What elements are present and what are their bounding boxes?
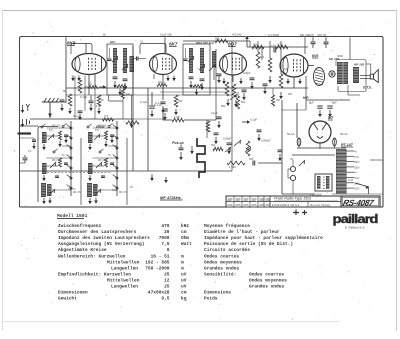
svg-text:Gewicht: Gewicht [58, 296, 77, 302]
svg-text:Abgestimmte Kreise: Abgestimmte Kreise [58, 247, 107, 253]
svg-text:300: 300 [178, 99, 183, 103]
svg-text:250V: 250V [354, 166, 360, 169]
svg-text:0,005µF: 0,005µF [261, 139, 271, 143]
svg-text:Watt: Watt [181, 241, 192, 247]
svg-text:750 -2000: 750 -2000 [145, 265, 170, 271]
svg-text:uV: uV [181, 284, 187, 290]
svg-text:m: m [181, 254, 184, 259]
svg-text:0,5: 0,5 [28, 150, 32, 153]
svg-text:500: 500 [249, 157, 254, 161]
svg-text:6K7: 6K7 [169, 42, 178, 47]
svg-text:170k: 170k [174, 115, 181, 119]
svg-text:MF 100: MF 100 [98, 125, 107, 128]
svg-text:Ondes moyennes: Ondes moyennes [249, 277, 287, 283]
svg-text:Pick-up: Pick-up [172, 141, 184, 145]
svg-text:100pF: 100pF [243, 71, 251, 75]
svg-text:70 370: 70 370 [68, 188, 76, 191]
svg-text:0,1µF: 0,1µF [140, 100, 147, 104]
svg-text:25k: 25k [253, 43, 258, 47]
svg-text:MF 472: MF 472 [73, 191, 82, 194]
svg-text:uV: uV [181, 277, 187, 283]
svg-text:Sensibilité:: Sensibilité: [204, 271, 236, 277]
svg-text:20: 20 [130, 186, 133, 189]
svg-text:uV: uV [181, 271, 187, 277]
svg-text:m: m [181, 266, 184, 271]
svg-text:50k: 50k [215, 37, 220, 41]
svg-text:0,1µF: 0,1µF [250, 118, 257, 122]
svg-text:Dimensions: Dimensions [204, 290, 231, 296]
svg-text:MF 160: MF 160 [98, 159, 107, 162]
svg-text:MF 472: MF 472 [119, 191, 128, 194]
svg-text:50k: 50k [211, 143, 216, 147]
svg-text:cm: cm [181, 291, 187, 296]
svg-text:47x80x28: 47x80x28 [148, 290, 170, 296]
svg-text:Empfindlichkeit: Kurzwellen: Empfindlichkeit: Kurzwellen [58, 271, 131, 277]
svg-text:25: 25 [164, 271, 170, 277]
svg-text:MF 100pF: MF 100pF [300, 33, 314, 37]
svg-text:E.PAILLARD & CIE S.A.: E.PAILLARD & CIE S.A. [272, 203, 300, 207]
svg-text:470: 470 [49, 130, 54, 132]
svg-text:Impedanz des zweiten Lautsprec: Impedanz des zweiten Lautsprechers [58, 235, 150, 241]
svg-text:1 MΩ: 1 MΩ [229, 165, 236, 169]
svg-text:Zwischenfrequenz: Zwischenfrequenz [58, 223, 102, 229]
svg-text:Langwellen: Langwellen [111, 265, 138, 271]
svg-text:6: 6 [167, 247, 170, 253]
svg-text:Langwellen: Langwellen [111, 284, 138, 290]
svg-text:6Q7: 6Q7 [228, 42, 237, 47]
svg-text:470 pF: 470 pF [317, 33, 327, 37]
svg-text:50k: 50k [221, 104, 226, 108]
svg-text:C.P.: C.P. [348, 178, 354, 182]
svg-text:Puissance de sortie (5% de Di: Puissance de sortie (5% de Dist.) [204, 241, 293, 247]
svg-text:0,1 µF: 0,1 µF [154, 103, 162, 107]
svg-text:m: m [181, 260, 184, 265]
svg-text:0,1µF: 0,1µF [112, 189, 119, 192]
svg-text:MF 160: MF 160 [52, 159, 61, 162]
svg-text:Wellenbereich: Kurzwellen: Wellenbereich: Kurzwellen [58, 253, 126, 259]
svg-text:50k: 50k [241, 101, 246, 104]
svg-text:300: 300 [158, 81, 163, 84]
svg-text:MF 100: MF 100 [52, 125, 61, 128]
svg-text:Ondes courtes: Ondes courtes [204, 253, 239, 259]
svg-text:470: 470 [161, 223, 169, 229]
svg-text:50: 50 [63, 89, 67, 93]
svg-text:0,05µF: 0,05µF [223, 137, 232, 141]
svg-text:Moyenne fréquence: Moyenne fréquence [204, 223, 250, 229]
svg-text:50: 50 [62, 155, 65, 157]
svg-text:Ohm: Ohm [181, 235, 189, 241]
svg-text:kHz: kHz [181, 223, 189, 229]
svg-text:470 240: 470 240 [232, 33, 242, 37]
svg-text:220V: 220V [354, 188, 360, 191]
svg-text:0,1µF: 0,1µF [211, 111, 218, 115]
svg-text:7000: 7000 [159, 235, 170, 241]
svg-text:110V: 110V [354, 177, 360, 180]
svg-text:Ausgangsleistung (5% Verzerrun: Ausgangsleistung (5% Verzerrung) [58, 241, 144, 247]
svg-text:E. Paillard S.A.: E. Paillard S.A. [345, 226, 365, 230]
svg-text:6,3V: 6,3V [354, 156, 359, 159]
svg-text:50: 50 [108, 155, 111, 157]
svg-text:4V: 4V [354, 172, 357, 175]
svg-text:50mA: 50mA [287, 132, 294, 136]
svg-text:47k: 47k [126, 93, 131, 96]
svg-text:Grandes ondes: Grandes ondes [249, 284, 284, 290]
svg-text:8µF: 8µF [332, 101, 337, 105]
svg-text:250: 250 [288, 93, 293, 96]
svg-text:0,1µF 20k: 0,1µF 20k [160, 33, 172, 37]
svg-text:6V6: 6V6 [312, 54, 319, 58]
svg-text:MF 472kHz.: MF 472kHz. [160, 195, 182, 200]
svg-text:0,1 5000: 0,1 5000 [268, 33, 279, 37]
svg-text:192 - 585: 192 - 585 [145, 259, 170, 265]
svg-text:9,5: 9,5 [161, 296, 169, 302]
svg-text:25k: 25k [84, 85, 89, 89]
svg-text:Impédance pour haut - parleur: Impédance pour haut - parleur supplément… [204, 235, 323, 241]
svg-text:Poids: Poids [204, 296, 218, 302]
svg-text:0,1: 0,1 [140, 40, 144, 44]
svg-text:470: 470 [95, 130, 100, 132]
svg-text:0,5: 0,5 [284, 67, 288, 71]
svg-text:cm: cm [181, 230, 187, 235]
svg-text:50mA: 50mA [340, 132, 347, 136]
svg-text:25k: 25k [276, 99, 281, 102]
svg-text:MF1: MF1 [110, 40, 116, 44]
svg-text:Durchmesser des Lautsprechers: Durchmesser des Lautsprechers [58, 229, 137, 235]
svg-text:250V: 250V [354, 161, 360, 164]
svg-text:Diamètre de l'haut - parleur: Diamètre de l'haut - parleur [204, 229, 280, 235]
svg-text:Ondes moyennes: Ondes moyennes [204, 259, 242, 265]
svg-text:Mittelwellen: Mittelwellen [107, 259, 140, 265]
svg-text:0,05: 0,05 [271, 44, 277, 48]
svg-text:T: T [14, 149, 16, 153]
svg-text:2k: 2k [101, 98, 104, 102]
svg-text:470: 470 [104, 115, 109, 118]
svg-text:20: 20 [164, 229, 170, 235]
svg-text:D.T.S.: D.T.S. [363, 86, 372, 90]
svg-text:4000: 4000 [337, 54, 343, 58]
svg-text:80: 80 [328, 115, 333, 120]
svg-text:HP-162: HP-162 [354, 63, 365, 67]
svg-text:Ondes courtes: Ondes courtes [249, 271, 284, 277]
svg-text:RS-4087: RS-4087 [342, 197, 375, 207]
svg-text:.5 µF: .5 µF [95, 104, 101, 108]
svg-text:100: 100 [94, 185, 99, 188]
svg-text:0,1µF: 0,1µF [80, 95, 87, 99]
svg-text:7,5: 7,5 [161, 241, 169, 247]
svg-text:RT-147: RT-147 [341, 143, 354, 147]
svg-text:25: 25 [164, 284, 170, 290]
svg-text:Ste-Croix (Suisse): Ste-Croix (Suisse) [310, 204, 330, 207]
svg-text:Dimensionen: Dimensionen [58, 290, 88, 296]
svg-text:1M: 1M [260, 55, 265, 59]
svg-text:Mittelwellen: Mittelwellen [107, 277, 140, 283]
svg-text:Modell 1501: Modell 1501 [57, 213, 88, 219]
svg-text:Grandes ondes: Grandes ondes [204, 265, 239, 271]
svg-text:4V: 4V [354, 151, 357, 154]
svg-text:4,7M: 4,7M [277, 43, 283, 47]
svg-text:Poste Radio Type 1501: Poste Radio Type 1501 [274, 197, 311, 201]
svg-text:Circuits accordés: Circuits accordés [204, 247, 250, 253]
svg-text:paillard: paillard [333, 212, 379, 226]
svg-text:16 - 51: 16 - 51 [151, 253, 170, 259]
